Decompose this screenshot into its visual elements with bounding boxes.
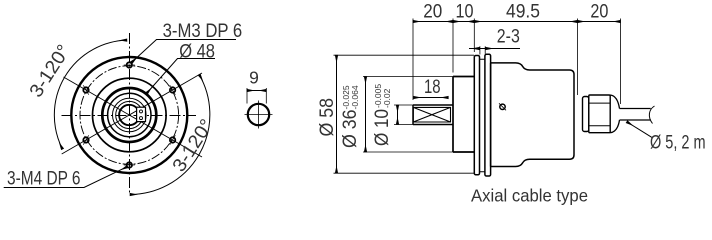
svg-text:49.5: 49.5 bbox=[506, 2, 540, 23]
svg-text:20: 20 bbox=[590, 2, 608, 23]
svg-text:Ø 48: Ø 48 bbox=[179, 42, 215, 63]
svg-text:20: 20 bbox=[423, 2, 442, 23]
svg-text:Ø 36: Ø 36 bbox=[340, 110, 361, 149]
svg-text:2-3: 2-3 bbox=[497, 27, 520, 48]
svg-text:3-120°: 3-120° bbox=[169, 116, 218, 176]
svg-text:Axial cable type: Axial cable type bbox=[471, 186, 588, 206]
svg-text:Ø 5, 2 m: Ø 5, 2 m bbox=[650, 133, 706, 154]
svg-text:-0.064: -0.064 bbox=[350, 85, 360, 109]
svg-text:10: 10 bbox=[456, 2, 474, 23]
svg-text:3-M4 DP 6: 3-M4 DP 6 bbox=[7, 169, 81, 190]
svg-text:18: 18 bbox=[424, 77, 441, 98]
svg-text:3-120°: 3-120° bbox=[26, 41, 75, 101]
svg-text:9: 9 bbox=[249, 68, 259, 88]
svg-text:Ø 58: Ø 58 bbox=[317, 98, 338, 137]
svg-text:-0.02: -0.02 bbox=[382, 88, 392, 108]
svg-text:3-M3 DP 6: 3-M3 DP 6 bbox=[163, 21, 243, 42]
svg-text:Ø 10: Ø 10 bbox=[372, 109, 393, 146]
